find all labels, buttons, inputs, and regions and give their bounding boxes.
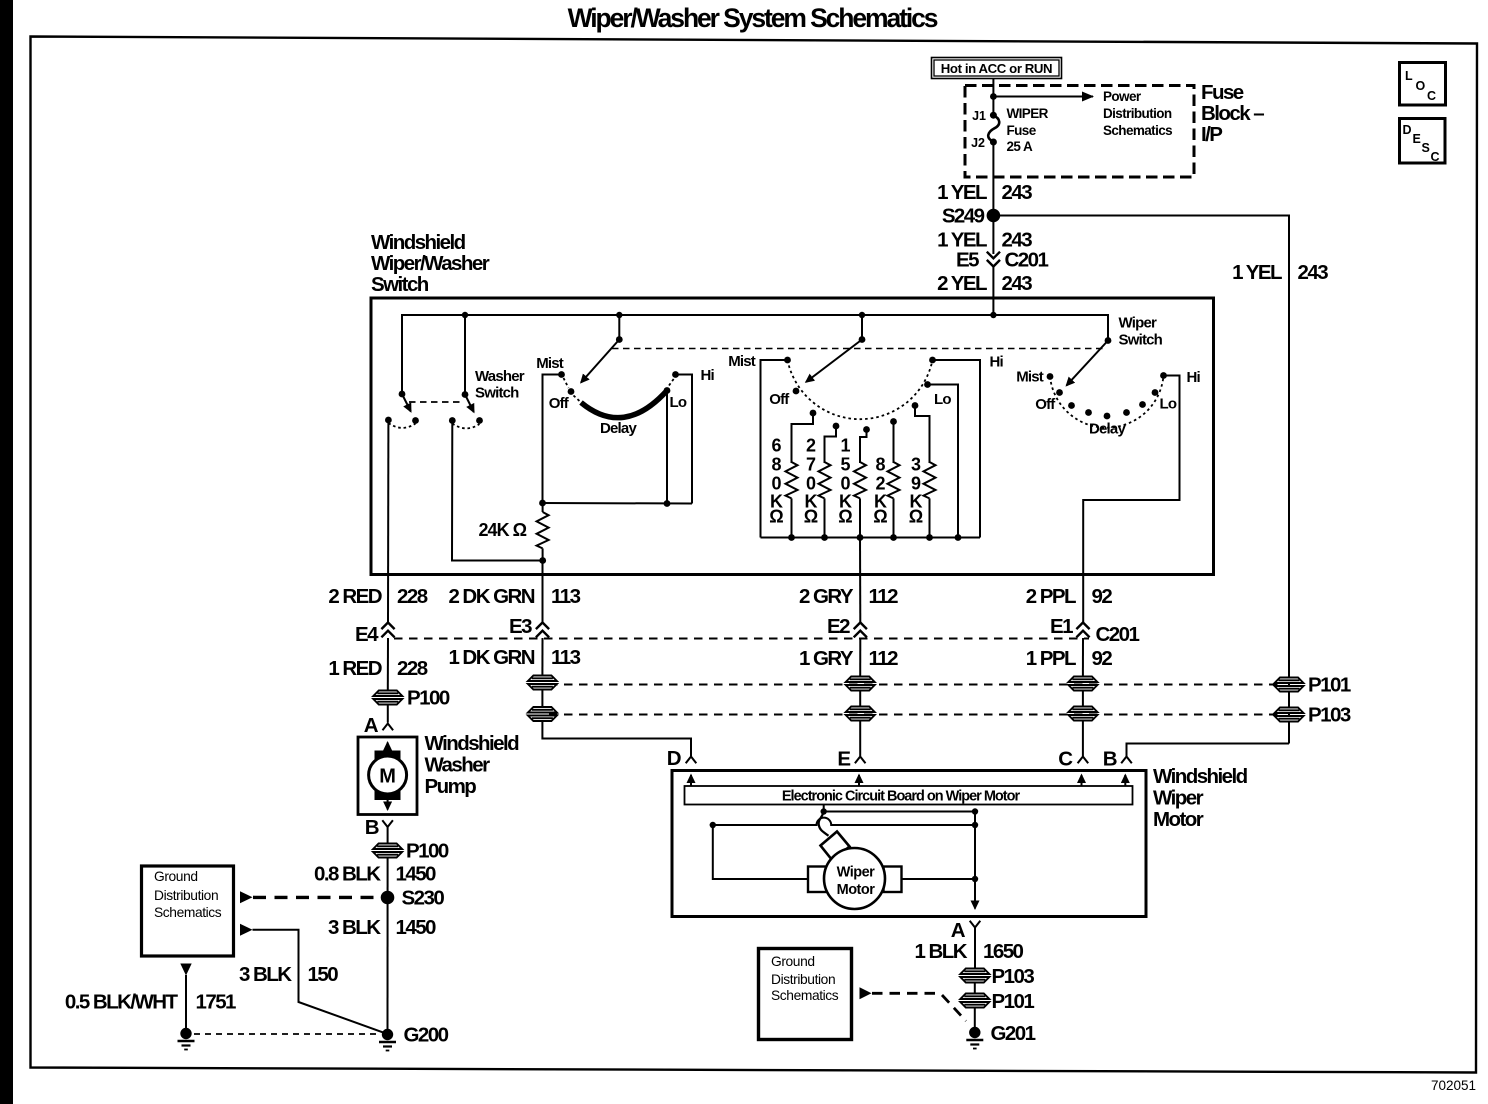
node top bus at arm2 xyxy=(859,312,865,318)
svg-text:Off: Off xyxy=(769,391,790,408)
svg-text:S: S xyxy=(1422,141,1430,155)
wire to G201 xyxy=(974,1008,976,1028)
svg-text:Windshield: Windshield xyxy=(425,732,520,755)
speed dashed rotor arc xyxy=(1050,376,1164,428)
brush left xyxy=(808,867,828,893)
svg-text:Motor: Motor xyxy=(837,882,876,898)
terminal A motor xyxy=(970,921,981,928)
dashed line P103 plane xyxy=(549,714,1281,716)
svg-text:5: 5 xyxy=(840,455,850,475)
wire 1 BLK 1650 xyxy=(974,928,976,969)
svg-text:Mist: Mist xyxy=(728,353,756,370)
arrow to S230 xyxy=(240,891,253,903)
svg-text:243: 243 xyxy=(1002,272,1033,295)
svg-text:0: 0 xyxy=(806,474,816,494)
svg-text:2 DK GRN: 2 DK GRN xyxy=(448,585,534,608)
svg-text:S249: S249 xyxy=(942,205,985,228)
svg-text:Lo: Lo xyxy=(670,394,687,411)
wire speed Hi to 2 PPL exit xyxy=(1083,376,1179,623)
svg-text:Distribution: Distribution xyxy=(154,888,218,903)
connector grommet GRN at P101 xyxy=(528,676,557,690)
Windshield Washer Pump box xyxy=(358,737,417,815)
wire S249 branch right xyxy=(993,216,1289,744)
board arrow D xyxy=(690,775,692,786)
svg-text:Schematics: Schematics xyxy=(771,988,839,1003)
svg-text:Electronic Circuit Board on Wi: Electronic Circuit Board on Wiper Motor xyxy=(782,789,1021,805)
dashed mechanical link line xyxy=(612,348,1103,350)
svg-text:Lo: Lo xyxy=(934,391,951,408)
svg-text:Delay: Delay xyxy=(1089,421,1126,438)
bank arc taps xyxy=(810,410,817,417)
ground G201 xyxy=(966,1027,983,1049)
circuit board bar xyxy=(685,786,1133,805)
svg-text:Hot in ACC or RUN: Hot in ACC or RUN xyxy=(941,61,1052,76)
svg-text:M: M xyxy=(379,766,396,788)
fuse block dashed box xyxy=(965,86,1194,178)
Ground Distribution Schematics box right xyxy=(759,949,852,1040)
wire 3 BLK 150 xyxy=(253,930,388,1034)
svg-text:Ω: Ω xyxy=(873,507,887,527)
svg-text:P103: P103 xyxy=(992,965,1035,988)
svg-text:2: 2 xyxy=(875,474,885,494)
node top bus at washer drop xyxy=(462,312,468,318)
svg-text:Wiper: Wiper xyxy=(837,865,876,881)
Windshield Wiper Motor box xyxy=(672,771,1146,917)
svg-text:Delay: Delay xyxy=(600,420,637,437)
connector P101 on YEL xyxy=(1275,678,1304,692)
switch box outline xyxy=(371,298,1214,575)
svg-text:C201: C201 xyxy=(1005,249,1049,272)
svg-text:113: 113 xyxy=(551,585,581,608)
Ground Distribution Schematics box left xyxy=(142,866,234,956)
svg-text:E2: E2 xyxy=(827,615,850,638)
svg-text:WIPER: WIPER xyxy=(1007,106,1049,121)
wire drop to washer switch 2 xyxy=(464,315,466,395)
wiper motor circle xyxy=(824,848,885,909)
wire bank Mist bracket xyxy=(761,360,788,538)
wire hook to commutator xyxy=(819,812,829,836)
wire bank to 2 GRY exit xyxy=(859,538,861,623)
svg-text:Off: Off xyxy=(1035,396,1056,413)
svg-text:1: 1 xyxy=(840,436,850,456)
svg-text:150: 150 xyxy=(308,963,339,986)
svg-text:C: C xyxy=(1427,89,1436,103)
connector C201 terminal E5 xyxy=(987,252,1000,267)
terminal A pump xyxy=(383,724,394,731)
LOC box xyxy=(1400,63,1446,106)
svg-text:D: D xyxy=(1403,123,1412,137)
wire bus top inside switch xyxy=(402,315,1108,394)
connector P100 on RED xyxy=(373,691,402,705)
svg-text:702051: 702051 xyxy=(1431,1078,1476,1093)
washer switch pole 1 xyxy=(385,391,419,428)
scan edge bar xyxy=(0,0,13,1104)
resistor 39K xyxy=(909,406,936,538)
DESC box xyxy=(1400,119,1446,165)
resistor 150K xyxy=(838,430,866,538)
wire 0.8 BLK 1450 xyxy=(387,858,389,1034)
svg-text:1 GRY: 1 GRY xyxy=(799,647,854,670)
svg-text:A: A xyxy=(951,919,966,942)
svg-text:C: C xyxy=(1431,150,1440,164)
svg-text:2 GRY: 2 GRY xyxy=(799,585,854,608)
svg-text:Motor: Motor xyxy=(1153,808,1204,831)
svg-text:2: 2 xyxy=(806,436,816,456)
svg-text:Schematics: Schematics xyxy=(1103,123,1172,138)
wire bank Hi bracket xyxy=(933,360,981,538)
terminal B motor xyxy=(1121,757,1132,764)
svg-text:1 RED: 1 RED xyxy=(328,657,381,680)
svg-text:1 PPL: 1 PPL xyxy=(1026,647,1076,670)
svg-text:Power: Power xyxy=(1103,89,1142,104)
wire interval bottom bus xyxy=(543,502,693,505)
terminal E2 xyxy=(854,623,867,638)
wire board to node row1 xyxy=(823,805,825,812)
wire pump B to P100 xyxy=(387,827,389,844)
svg-text:E: E xyxy=(837,748,850,771)
svg-text:3 BLK: 3 BLK xyxy=(328,916,381,939)
svg-text:Wiper/Washer: Wiper/Washer xyxy=(371,252,490,275)
box Hot in ACC or RUN xyxy=(932,58,1062,79)
svg-text:Windshield: Windshield xyxy=(371,231,466,254)
thick dashed S230 link xyxy=(253,896,379,899)
dashed link to G200 xyxy=(194,1033,378,1035)
svg-text:E5: E5 xyxy=(956,249,979,272)
svg-text:Block –: Block – xyxy=(1201,102,1264,125)
board arrow C xyxy=(1081,775,1083,786)
wire RED to pump A xyxy=(387,705,389,723)
arrow to Power Distribution Schematics xyxy=(993,96,1093,98)
svg-text:Switch: Switch xyxy=(371,273,429,296)
svg-text:Wiper/Washer System Schematics: Wiper/Washer System Schematics xyxy=(568,3,938,33)
svg-text:C: C xyxy=(1058,748,1073,771)
svg-text:112: 112 xyxy=(869,647,899,670)
svg-text:228: 228 xyxy=(397,657,428,680)
svg-text:Windshield: Windshield xyxy=(1153,765,1248,788)
svg-text:Ground: Ground xyxy=(154,869,198,884)
wire 1 YEL 243 (fuse to S249) xyxy=(992,142,994,216)
fuse WIPER 25A xyxy=(971,106,1049,154)
node top bus at 2YEL entry xyxy=(990,312,996,318)
ground G200 xyxy=(379,1029,396,1051)
svg-text:E: E xyxy=(1413,132,1421,146)
wire row2 xyxy=(713,818,975,825)
svg-text:J1: J1 xyxy=(972,109,986,123)
pump motor M xyxy=(369,751,407,801)
svg-text:0: 0 xyxy=(840,474,850,494)
connector P100 lower xyxy=(373,844,402,858)
connector C201 dashed line xyxy=(394,638,1089,640)
svg-text:O: O xyxy=(1416,79,1426,93)
svg-text:Ω: Ω xyxy=(804,507,818,527)
board arrow E xyxy=(858,775,860,786)
wire 2 YEL 243 (C201 into switch) xyxy=(992,267,994,316)
wire washer2 contact to 24K bottom xyxy=(452,424,543,561)
svg-text:0.8 BLK: 0.8 BLK xyxy=(314,863,381,886)
wire Mist bracket left xyxy=(543,375,562,504)
svg-text:E3: E3 xyxy=(509,615,532,638)
svg-text:E1: E1 xyxy=(1050,615,1073,638)
dashed link to G201 wire xyxy=(872,992,941,995)
svg-text:1 BLK: 1 BLK xyxy=(915,940,968,963)
connector P101 lower xyxy=(960,994,989,1008)
svg-text:6: 6 xyxy=(771,436,781,456)
svg-text:Wiper: Wiper xyxy=(1119,315,1157,332)
terminal E4 xyxy=(381,623,394,638)
connector P103 on YEL xyxy=(1275,708,1304,722)
svg-text:2 YEL: 2 YEL xyxy=(937,272,987,295)
svg-text:P101: P101 xyxy=(1308,674,1351,697)
board arrow B xyxy=(1124,775,1126,786)
ground symbol left xyxy=(178,1028,195,1050)
svg-text:Washer: Washer xyxy=(425,754,491,777)
svg-text:2 PPL: 2 PPL xyxy=(1026,585,1076,608)
svg-text:112: 112 xyxy=(869,585,899,608)
wire 24K junction to 2 DK GRN exit xyxy=(542,561,544,623)
svg-text:P101: P101 xyxy=(992,990,1035,1013)
svg-text:8: 8 xyxy=(771,455,781,475)
svg-text:Schematics: Schematics xyxy=(154,905,222,920)
svg-text:E4: E4 xyxy=(355,623,379,646)
svg-text:I/P: I/P xyxy=(1201,123,1222,146)
node S230 xyxy=(381,891,395,905)
terminal D motor xyxy=(686,757,697,764)
brush right xyxy=(884,867,902,893)
svg-text:8: 8 xyxy=(875,455,885,475)
svg-text:1450: 1450 xyxy=(396,863,437,886)
wire 1 DK GRN segments xyxy=(541,638,543,676)
pump internal feed arrows xyxy=(387,743,389,759)
wire 1 PPL segments xyxy=(1082,638,1084,677)
wire YEL to motor B xyxy=(1127,744,1290,757)
terminal C motor xyxy=(1078,757,1089,764)
svg-text:Mist: Mist xyxy=(536,355,564,372)
wire motor ground drop xyxy=(974,812,976,909)
svg-text:243: 243 xyxy=(1002,181,1033,204)
terminal E motor xyxy=(855,757,866,764)
svg-text:G201: G201 xyxy=(991,1022,1036,1045)
node top bus at arm1 xyxy=(616,312,622,318)
svg-text:228: 228 xyxy=(397,585,428,608)
connector P103 lower xyxy=(960,969,989,983)
wire washer contact to 2 RED exit xyxy=(387,423,389,622)
dashed line P101 plane xyxy=(549,684,1281,686)
svg-text:Distribution: Distribution xyxy=(771,972,835,987)
wire brush left feed xyxy=(713,825,808,879)
svg-text:Fuse: Fuse xyxy=(1007,123,1037,138)
svg-text:D: D xyxy=(667,747,681,770)
svg-text:243: 243 xyxy=(1298,261,1329,284)
svg-text:92: 92 xyxy=(1092,647,1113,670)
wiper arm 2 (resistor bank) xyxy=(806,315,865,382)
svg-text:1751: 1751 xyxy=(196,991,237,1014)
terminal B pump xyxy=(382,820,393,827)
svg-text:Lo: Lo xyxy=(1160,396,1177,413)
svg-text:3 BLK: 3 BLK xyxy=(239,963,292,986)
wire from Hot box to J1 xyxy=(992,79,994,116)
svg-text:1 YEL: 1 YEL xyxy=(1232,261,1282,284)
svg-text:Ω: Ω xyxy=(909,507,923,527)
wire 1 YEL 243 (S249 to C201) xyxy=(992,216,994,255)
svg-text:2 RED: 2 RED xyxy=(328,585,381,608)
svg-text:0: 0 xyxy=(771,474,781,494)
node power tap xyxy=(990,93,997,100)
Delay thick arc xyxy=(581,391,667,418)
svg-text:Distribution: Distribution xyxy=(1103,106,1172,121)
svg-text:P103: P103 xyxy=(1308,704,1351,727)
svg-text:1 DK GRN: 1 DK GRN xyxy=(448,646,534,669)
wire GRN to motor D xyxy=(542,721,691,756)
svg-text:113: 113 xyxy=(551,646,581,669)
node S249 xyxy=(987,209,1001,223)
svg-text:Hi: Hi xyxy=(701,367,715,384)
svg-text:Hi: Hi xyxy=(990,354,1004,371)
resistor 270K xyxy=(804,426,836,538)
dashed link washer poles xyxy=(409,401,460,403)
wire 1 RED segment xyxy=(387,638,389,690)
svg-text:Washer: Washer xyxy=(475,368,525,385)
arrow down from ground box xyxy=(180,964,191,976)
svg-text:B: B xyxy=(1103,748,1117,771)
svg-text:Mist: Mist xyxy=(1016,369,1044,386)
svg-text:Ω: Ω xyxy=(769,507,783,527)
svg-text:Ground: Ground xyxy=(771,954,815,969)
terminal E3 xyxy=(536,623,549,638)
wire 0.5 BLK/WHT 1751 xyxy=(185,975,187,1028)
connector grommet GRN at P103 xyxy=(528,707,557,721)
svg-text:P100: P100 xyxy=(406,840,449,863)
svg-text:Hi: Hi xyxy=(1187,369,1201,386)
wire Hi bracket right xyxy=(676,375,693,504)
svg-text:7: 7 xyxy=(806,455,816,475)
svg-text:G200: G200 xyxy=(404,1024,449,1047)
svg-text:Fuse: Fuse xyxy=(1201,81,1244,104)
svg-text:J2: J2 xyxy=(971,136,985,150)
wiper arm 3 (speed) xyxy=(1067,337,1112,385)
resistor 24K xyxy=(479,503,549,564)
svg-text:Switch: Switch xyxy=(475,385,519,402)
svg-text:0.5 BLK/WHT: 0.5 BLK/WHT xyxy=(65,991,179,1014)
svg-text:92: 92 xyxy=(1092,585,1113,608)
wire Lo drop xyxy=(666,391,668,504)
arrow from right ground box xyxy=(860,987,872,999)
svg-text:25 A: 25 A xyxy=(1007,139,1033,154)
speed arc dots xyxy=(1068,402,1075,409)
svg-text:Ω: Ω xyxy=(838,507,852,527)
svg-text:Pump: Pump xyxy=(425,775,477,798)
svg-text:A: A xyxy=(364,714,379,737)
wiper arm 1 (interval) xyxy=(581,315,623,383)
svg-text:Wiper: Wiper xyxy=(1153,787,1204,810)
svg-text:24K Ω: 24K Ω xyxy=(479,520,527,540)
svg-text:Switch: Switch xyxy=(1119,332,1163,349)
wire brush right to ground bus xyxy=(902,878,976,880)
svg-text:S230: S230 xyxy=(402,887,445,910)
terminal E1 xyxy=(1076,623,1089,638)
arrow to 3 BLK 150 wire xyxy=(240,924,253,936)
wire bank Lo bracket xyxy=(928,385,959,538)
svg-text:3: 3 xyxy=(911,455,921,475)
resistor 82K xyxy=(873,422,899,538)
svg-text:9: 9 xyxy=(911,474,921,494)
svg-text:L: L xyxy=(1405,69,1413,83)
svg-text:1 YEL: 1 YEL xyxy=(937,181,987,204)
svg-text:C201: C201 xyxy=(1096,623,1140,646)
svg-text:1650: 1650 xyxy=(983,940,1024,963)
svg-text:B: B xyxy=(365,816,379,839)
washer switch pole 2 xyxy=(449,391,483,428)
bank dashed rotor arc xyxy=(788,360,933,419)
resistor 680K xyxy=(769,413,813,538)
wire bank bottom bus xyxy=(761,537,981,539)
commutator tilted block xyxy=(821,832,850,861)
wire segment xyxy=(974,983,976,994)
wire 1 GRY segments xyxy=(859,638,861,677)
svg-text:Off: Off xyxy=(549,395,570,412)
svg-text:1450: 1450 xyxy=(396,916,437,939)
svg-text:P100: P100 xyxy=(407,687,450,710)
